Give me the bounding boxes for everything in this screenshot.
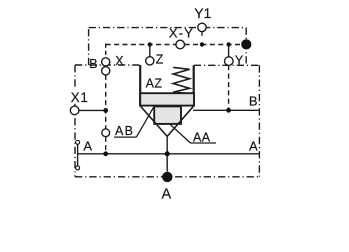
svg-text:A: A [162, 186, 172, 202]
junction dot Y1 [200, 42, 204, 46]
svg-text:B: B [89, 57, 97, 71]
svg-text:X: X [115, 54, 124, 68]
svg-text:Z: Z [156, 53, 164, 67]
svg-text:AZ: AZ [146, 77, 163, 91]
A port left vertical [77, 144, 79, 166]
junction dot Y on B line [226, 108, 231, 113]
port B lower circle [102, 67, 110, 75]
svg-text:Y1: Y1 [194, 5, 211, 21]
seat line right [167, 106, 193, 136]
port X-Y [176, 40, 185, 49]
AB underline [114, 136, 136, 138]
svg-text:AA: AA [193, 131, 211, 145]
boundary main top-right edge [194, 64, 260, 66]
boundary top box left edge [88, 28, 90, 65]
leader line AB [136, 107, 153, 137]
A line [78, 153, 260, 155]
boundary main right edge [258, 65, 260, 177]
valve body left wall [139, 65, 141, 106]
junction dot Z branch [148, 42, 152, 46]
B line [193, 109, 259, 111]
port X upper circle [102, 58, 110, 66]
boundary main left edge [74, 65, 76, 177]
pilot stub Y1 [201, 31, 203, 44]
port Y1 [198, 23, 206, 31]
A port small circle top [76, 140, 80, 144]
junction dot X1 [103, 108, 108, 113]
boundary main bottom edge [75, 176, 259, 178]
port Z [146, 57, 154, 65]
pilot stub Z [149, 45, 151, 58]
boundary top box right edge [245, 28, 247, 66]
plugged port A bottom [162, 172, 172, 182]
piston band [140, 93, 194, 105]
boundary top box top edge [89, 27, 247, 29]
leader line AA [170, 124, 191, 143]
A port small circle bottom [76, 166, 80, 170]
seat line left [141, 106, 168, 136]
port X1 [70, 106, 79, 115]
junction dot Y branch [227, 42, 231, 46]
junction dot stem on A line [165, 151, 170, 156]
pilot line X/B down through X1 junction to AB circle [105, 75, 107, 129]
pilot line AB circle to A line [105, 137, 107, 153]
svg-text:X1: X1 [71, 90, 89, 105]
pilot line dashed horizontal X-Y [106, 44, 246, 46]
X1 line [79, 109, 106, 111]
svg-text:X-Y: X-Y [169, 26, 194, 41]
poppet sleeve [154, 106, 181, 124]
pilot stub Y [228, 46, 230, 58]
junction dot AB on A line [103, 151, 108, 156]
port Y [225, 57, 234, 66]
boundary main top-left edge [75, 64, 141, 66]
AA underline [191, 142, 217, 144]
valve body right wall [193, 65, 195, 106]
svg-text:B: B [249, 94, 258, 109]
svg-text:A: A [83, 139, 92, 154]
spring [173, 67, 189, 93]
svg-text:AB: AB [115, 124, 134, 138]
port AB [102, 129, 110, 137]
poppet stem [166, 136, 168, 171]
pilot line corner to X port [105, 44, 107, 58]
svg-text:Y: Y [235, 54, 244, 68]
svg-text:A: A [249, 139, 258, 154]
pilot line Y down to B line [228, 65, 230, 108]
plugged port X-Y top right [241, 39, 251, 49]
